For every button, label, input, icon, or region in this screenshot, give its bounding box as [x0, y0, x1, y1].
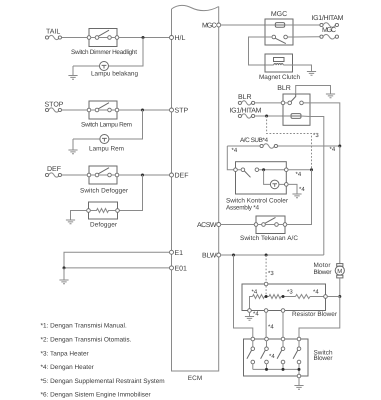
wire BLW to switch blower col1 — [234, 255, 253, 339]
svg-text:Switch Tekanan A/C: Switch Tekanan A/C — [240, 235, 298, 242]
svg-text:MGC: MGC — [271, 11, 287, 18]
junction tail branch — [142, 36, 145, 39]
lamp Lampu Rem — [89, 135, 124, 153]
fuse BLR — [238, 94, 255, 105]
svg-text:*4: *4 — [232, 147, 238, 154]
svg-text:Motor: Motor — [314, 262, 332, 269]
svg-text:Resistor Blower: Resistor Blower — [292, 311, 338, 318]
wire branch to lamp — [73, 110, 143, 139]
wire tap2 to col2 — [265, 312, 267, 339]
lamp Lampu belakang — [91, 62, 138, 78]
svg-text:*4: *4 — [330, 146, 336, 153]
svg-text:*6: Dengan Sistem Engine Immob: *6: Dengan Sistem Engine Immobiliser — [41, 392, 152, 399]
switch S1 Switch Dimmer Headlight — [71, 29, 137, 57]
wire branch to lamp — [73, 38, 143, 67]
wire defogger to ground — [71, 211, 87, 221]
motor M Motor Blower — [314, 146, 345, 297]
svg-text:TAIL: TAIL — [46, 29, 60, 36]
node ACSW — [197, 222, 221, 229]
fuse A/C SUB*4 — [240, 137, 278, 148]
fuse DEF — [45, 166, 61, 177]
svg-text:Lampu belakang: Lampu belakang — [91, 71, 138, 78]
svg-text:*2: Dengan Transmisi Otomatis.: *2: Dengan Transmisi Otomatis. — [41, 337, 132, 344]
node DEF — [170, 173, 189, 180]
wire magnet clutch to ground — [293, 65, 312, 72]
svg-text:*4: *4 — [253, 311, 259, 318]
svg-text:BLR: BLR — [238, 94, 252, 101]
ground (switch blower) — [294, 386, 303, 390]
ECM connector bus — [172, 5, 219, 371]
svg-text:Switch Defogger: Switch Defogger — [80, 188, 129, 195]
wire BLR fuse to relay — [255, 102, 283, 104]
ground (cooler) — [292, 194, 301, 198]
wire relay top to ground — [296, 86, 331, 95]
node BLW — [202, 253, 221, 260]
wire STOP fuse to switch — [62, 109, 90, 111]
fuse MGC — [320, 27, 339, 39]
svg-text:M: M — [337, 268, 342, 275]
node E01 — [170, 266, 188, 273]
junction cooler/tekanan/dashed — [310, 168, 313, 171]
relay BLR — [277, 85, 310, 125]
resistor Defogger — [87, 202, 120, 229]
wire relay switch to MGC fuse — [293, 36, 320, 38]
wire switch to STP — [119, 109, 170, 111]
wire to cooler switch — [227, 146, 235, 170]
wire MGC to relay — [221, 24, 266, 26]
svg-text:DEF: DEF — [175, 173, 189, 180]
wire switch to DEF — [119, 174, 170, 176]
svg-text:*4: *4 — [296, 171, 302, 178]
ground (tail lamp) — [68, 66, 77, 79]
svg-text:Switch Kontrol Cooler: Switch Kontrol Cooler — [226, 198, 289, 205]
ground (stop lamp) — [68, 139, 77, 154]
svg-text:Magnet Clutch: Magnet Clutch — [259, 74, 300, 81]
ground (BLR relay) — [326, 94, 335, 98]
svg-text:Switch Lampu Rem: Switch Lampu Rem — [81, 122, 132, 129]
wire tap3 to col3 — [282, 312, 284, 339]
fuse STOP — [45, 101, 64, 112]
wire cooler lamp to ground — [288, 184, 297, 194]
svg-text:Defogger: Defogger — [90, 222, 118, 229]
wire DEF fuse to switch — [62, 174, 90, 176]
junction motor/resistor — [338, 295, 341, 298]
wire resistor right to motor junction — [327, 296, 340, 298]
fuse IG1/HITAM (blower) — [230, 107, 262, 118]
fuse TAIL — [45, 29, 61, 40]
svg-text:A/C SUB*4: A/C SUB*4 — [240, 137, 268, 144]
switch assembly Switch Blower — [244, 337, 334, 378]
node MGC — [202, 23, 221, 30]
wire to ground — [63, 268, 65, 280]
svg-text:*3: *3 — [268, 270, 274, 277]
junction dashed *3 tap — [265, 115, 268, 118]
svg-text:IG1/HITAM: IG1/HITAM — [230, 107, 262, 115]
wire A/C SUB feed — [227, 145, 339, 147]
wire pressure switch up to junction — [287, 170, 312, 225]
svg-text:STP: STP — [175, 108, 189, 115]
svg-text:*4: *4 — [313, 289, 319, 296]
svg-text:*4: *4 — [252, 289, 258, 296]
node H/L — [170, 34, 186, 42]
wire relay switch output — [310, 103, 340, 146]
wire branch to defogger — [119, 175, 142, 211]
svg-text:H/L: H/L — [175, 34, 186, 42]
svg-text:MGC: MGC — [202, 23, 217, 30]
wire relay coil to IG1/HITAM fuse — [293, 24, 320, 26]
svg-text:*3: *3 — [313, 132, 319, 139]
svg-text:*3: Tanpa Heater: *3: Tanpa Heater — [41, 350, 90, 357]
wire relay coil to BLW line — [310, 117, 324, 256]
resistor R Resistor Blower — [242, 282, 338, 318]
svg-text:*4: *4 — [269, 353, 275, 360]
svg-text:*4: *4 — [299, 186, 305, 193]
svg-text:*4: *4 — [268, 324, 274, 331]
wire ACSW to pressure switch — [221, 224, 257, 226]
ground (magnet clutch) — [307, 72, 316, 76]
ground (E1/E01) — [59, 280, 68, 284]
ground (resistor) — [245, 317, 254, 321]
wire switch blower to ground — [298, 378, 300, 386]
svg-text:IG1/HITAM: IG1/HITAM — [312, 14, 344, 22]
wire resistor left tap to ground — [249, 312, 251, 316]
svg-text:MGC: MGC — [322, 27, 336, 34]
svg-text:ECM: ECM — [188, 375, 203, 382]
fuse IG1/HITAM — [312, 14, 344, 27]
svg-text:Blower: Blower — [314, 355, 334, 362]
svg-text:STOP: STOP — [45, 101, 64, 108]
svg-text:E1: E1 — [175, 250, 184, 257]
wire dashed *3 to resistor — [265, 255, 267, 282]
svg-text:*5: Dengan Supplemental Restra: *5: Dengan Supplemental Restraint System — [41, 378, 165, 385]
svg-text:Assembly *4: Assembly *4 — [226, 205, 259, 212]
wire E01 — [64, 267, 170, 269]
wire E1 — [64, 252, 170, 268]
svg-text:*3: *3 — [287, 289, 293, 296]
wire cooler switch output — [288, 169, 311, 171]
footnotes — [41, 323, 165, 399]
junction A/C SUB right — [338, 145, 341, 148]
wire motor line down to col4 — [299, 297, 340, 340]
svg-text:Switch Dimmer Headlight: Switch Dimmer Headlight — [71, 49, 137, 56]
solenoid Magnet Clutch — [259, 54, 300, 81]
svg-text:BLW: BLW — [202, 253, 217, 260]
junction dashed *3 blower — [265, 254, 268, 257]
svg-text:DEF: DEF — [47, 166, 61, 173]
wire fuse to relay coil — [255, 115, 283, 117]
switch S2 Switch Lampu Rem — [81, 101, 132, 129]
svg-text:Lampu Rem: Lampu Rem — [89, 146, 124, 153]
junction def branch — [141, 174, 144, 177]
wire TAIL fuse to switch — [62, 37, 90, 39]
node E1 — [170, 250, 184, 257]
junction stop branch — [141, 109, 144, 112]
wire BLW line — [221, 254, 324, 256]
switch A/C Kontrol Cooler Assembly — [226, 162, 289, 212]
node STP — [170, 108, 189, 115]
svg-text:E01: E01 — [175, 266, 188, 273]
svg-text:Blower: Blower — [314, 269, 333, 276]
svg-text:ACSW: ACSW — [197, 222, 217, 229]
wire switch to H/L — [119, 37, 170, 39]
switch S3 Switch Defogger — [80, 166, 129, 195]
svg-text:BLR: BLR — [277, 85, 291, 92]
junction E ground — [63, 266, 66, 269]
switch Tekanan A/C — [240, 216, 298, 242]
relay MGC — [265, 11, 293, 45]
ground (defogger) — [66, 220, 75, 224]
junction blower col1 — [232, 254, 235, 257]
svg-text:*4: Dengan Heater: *4: Dengan Heater — [41, 364, 95, 371]
wire dashed *3 path — [267, 116, 312, 170]
wire relay to magnet clutch — [249, 37, 266, 65]
svg-text:*1: Dengan Transmisi Manual.: *1: Dengan Transmisi Manual. — [41, 323, 127, 330]
